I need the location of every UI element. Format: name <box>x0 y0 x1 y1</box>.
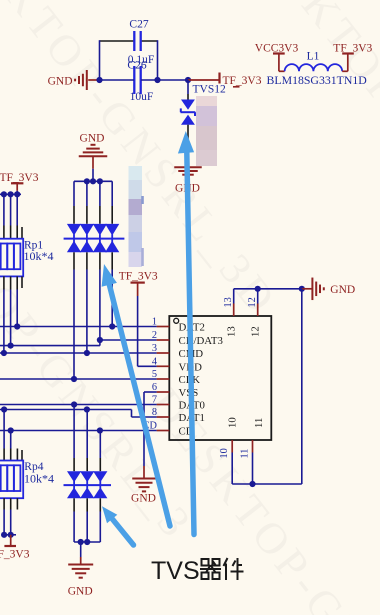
pins into Rp1 <box>3 226 5 239</box>
capacitor C26 10uF <box>133 66 135 94</box>
junction Rp1-DAT2 <box>14 323 20 329</box>
wire C27 loop top <box>100 40 135 42</box>
ground GND right <box>311 278 313 301</box>
wires Rp1 down into mesh <box>16 290 18 327</box>
pins out of TVS array bottom <box>73 252 75 269</box>
wire CD net to pin CD <box>0 430 157 432</box>
wire TVS12 to ground <box>187 151 189 167</box>
blur patch column near top TVS array <box>129 166 143 180</box>
junction Rp4-CD <box>8 427 14 433</box>
wire C27 loop left <box>99 40 101 80</box>
svg-text:TVS: TVS <box>151 557 200 585</box>
wire VDD vertical <box>137 296 139 366</box>
svg-text:C27: C27 <box>129 19 148 31</box>
wire VSS pin6 to ground <box>144 391 157 393</box>
svg-text:CD/DAT3: CD/DAT3 <box>179 335 223 347</box>
junction TVS-DAT1 <box>84 406 90 412</box>
wire DAT2 net to pin1 <box>0 326 157 328</box>
svg-text:12: 12 <box>250 326 262 337</box>
wire VSS ground stub <box>143 466 145 479</box>
pins into TVS array top <box>73 206 75 224</box>
wires TVS array down into mesh <box>73 270 75 380</box>
svg-text:TF_3V3: TF_3V3 <box>333 42 372 54</box>
svg-text:L1: L1 <box>307 51 320 63</box>
svg-text:GND: GND <box>48 76 73 88</box>
junction Rp1-CMD <box>1 350 7 356</box>
resistor pack Rp1 10k*4 <box>0 239 23 277</box>
junction GND column <box>299 286 305 292</box>
wire C27 loop right <box>157 40 159 80</box>
wire GND stub right <box>302 288 313 290</box>
wire GND column right side <box>301 289 303 484</box>
junction node at C26 right <box>154 77 160 83</box>
pins into bottom TVS array <box>73 458 75 471</box>
wire DAT3 branch from Rp1 <box>0 345 100 347</box>
pin 1 indicator circle <box>174 318 179 323</box>
wire GND net top of IC <box>234 288 302 290</box>
arrow to top TVS array <box>109 284 170 526</box>
wire ground stub <box>80 542 82 557</box>
svg-text:TVS12: TVS12 <box>193 83 226 95</box>
junction Rp1-DAT3 <box>8 343 14 349</box>
arrow to TVS12 <box>187 152 194 535</box>
wire GND stub to node <box>88 79 99 81</box>
inductor L1 BLM18SG331TN1D <box>285 64 343 71</box>
svg-text:13: 13 <box>223 297 234 307</box>
arrow to bottom TVS array <box>112 519 133 545</box>
junction dots Rp4 bottom bus <box>1 532 7 538</box>
wire CMD net to pin3 <box>0 352 157 354</box>
power port TF_3V3 top <box>218 73 220 84</box>
svg-text:10k*4: 10k*4 <box>24 472 54 486</box>
wire to TF_3V3 port <box>188 79 220 81</box>
glyph QI (vessel) <box>200 559 221 579</box>
junction dots on TVS top bus <box>84 178 90 184</box>
resistor pack Rp4 10k*4 <box>0 461 23 499</box>
pins out of Rp1 bottom <box>3 276 5 289</box>
svg-text:TF_3V3: TF_3V3 <box>223 75 262 87</box>
junction node TVS12 tap <box>185 77 191 83</box>
wires bus down to TVS array pins <box>73 181 75 206</box>
power port TF_3V3 bottom <box>10 535 12 545</box>
junction node at C26 left <box>96 77 102 83</box>
svg-text:VSS: VSS <box>179 387 199 399</box>
svg-text:10: 10 <box>219 448 230 458</box>
wire main rail y80 <box>100 79 135 81</box>
wire DAT1 net to pin8 <box>0 409 132 411</box>
wires bus to Rp1 pins <box>3 194 5 225</box>
junction TVS-DAT3 <box>97 337 103 343</box>
junction TVS-DAT0 <box>71 401 77 407</box>
pins into Rp4 <box>3 449 5 461</box>
wires bottom TVS to ground bus <box>73 512 75 543</box>
wire TVS top bus <box>74 180 112 182</box>
power port TF_3V3 right <box>342 70 348 72</box>
junction dots bottom TVS ground bus <box>78 539 84 545</box>
svg-text:TF_3V3: TF_3V3 <box>0 548 30 560</box>
wires into Rp4 top <box>3 410 5 449</box>
wire node to TVS12 <box>187 80 189 94</box>
junction Rp4-DAT1 <box>1 406 7 412</box>
ground GND under TVS12 <box>174 166 202 168</box>
ground GND top-left <box>86 70 88 90</box>
wire DAT0 net to pin7 <box>0 404 157 406</box>
IC left pin stubs <box>157 326 170 328</box>
svg-text:10: 10 <box>227 417 239 428</box>
junction TVS-CMD <box>84 350 90 356</box>
junction TVS-CLK <box>71 376 77 382</box>
TVS diode array top (4 bidirectional diodes) <box>67 224 81 236</box>
IC bottom pins 10 and 11 <box>231 440 233 453</box>
svg-text:10k*4: 10k*4 <box>24 249 54 263</box>
pin TVS12 bottom <box>187 125 189 151</box>
junction pin12 to GND wire <box>255 286 261 292</box>
wire bottom loop pins 10/11 to GND column <box>232 483 302 485</box>
svg-text:GND: GND <box>131 493 156 505</box>
svg-text:11: 11 <box>240 449 251 459</box>
junction TVS-CD <box>97 427 103 433</box>
svg-text:TF_3V3: TF_3V3 <box>119 271 158 283</box>
ground GND below bottom TVS <box>68 564 93 566</box>
wire VDD to pin4 <box>138 365 157 367</box>
pin TVS12 top <box>187 94 189 100</box>
IC top pins 13 and 12 <box>233 304 235 317</box>
svg-text:10uF: 10uF <box>130 91 154 103</box>
wires Rp4 bottom to TF_3V3 <box>3 510 5 535</box>
pins out of Rp4 <box>3 498 5 509</box>
wire Rp1 top bus <box>0 193 21 195</box>
junction TVS-DAT2 <box>109 323 115 329</box>
svg-text:GND: GND <box>80 132 105 144</box>
ground GND below IC for VSS <box>132 478 156 480</box>
junction pin11 bottom loop <box>249 481 255 487</box>
svg-text:C26: C26 <box>127 60 146 72</box>
wire GND stub down to bus <box>92 156 94 169</box>
pins out of bottom TVS array <box>73 498 75 511</box>
capacitor C27 0.1uF <box>133 31 135 51</box>
svg-text:12: 12 <box>247 297 258 307</box>
svg-text:13: 13 <box>226 326 238 337</box>
wire CD/DAT3 net to pin2 <box>100 339 157 341</box>
svg-text:GND: GND <box>68 586 93 598</box>
svg-text:BLM18SG331TN1D: BLM18SG331TN1D <box>267 73 368 87</box>
wire CLK net to pin5 <box>0 378 157 380</box>
svg-text:GND: GND <box>330 284 355 296</box>
diode TVS12 <box>181 100 195 110</box>
junction dots Rp1 bus <box>1 191 7 197</box>
wires mesh down to bottom TVS array <box>73 405 75 459</box>
svg-text:11: 11 <box>253 418 265 428</box>
glyph JIAN (component) <box>224 558 244 580</box>
blur patch near TVS12 <box>196 96 217 106</box>
TVS diode array bottom (3 bidirectional diodes) <box>67 471 81 482</box>
IC TF card connector body <box>169 316 271 440</box>
